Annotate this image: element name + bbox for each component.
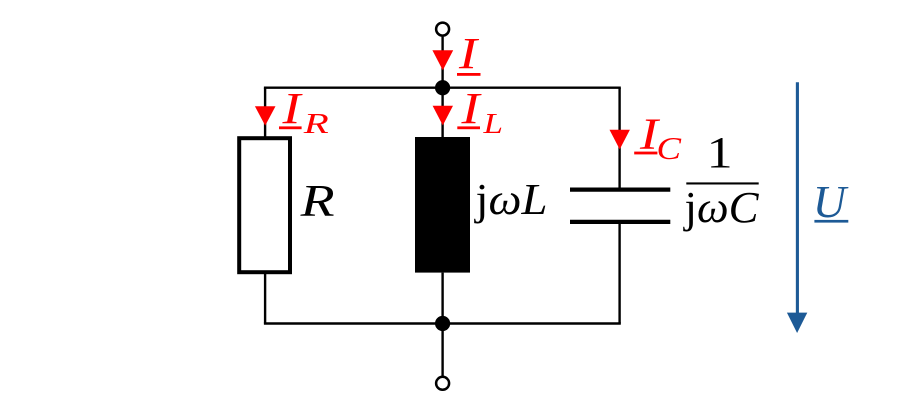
resistor R (white rectangle) bbox=[239, 138, 290, 272]
terminal: bottom port (open circle) bbox=[436, 377, 449, 390]
label I_R (red, underlined, subscript R) bbox=[279, 84, 329, 140]
current arrow I (red arrowhead) bbox=[432, 50, 453, 70]
wire: middle branch lower segment bbox=[441, 273, 443, 324]
svg-text:U: U bbox=[813, 176, 849, 227]
current arrow I_R (red arrowhead) bbox=[255, 106, 276, 125]
wire: left branch upper segment bbox=[264, 88, 266, 137]
wire: top horizontal bus bbox=[264, 86, 621, 88]
capacitor C top plate bbox=[570, 188, 670, 192]
svg-text:I: I bbox=[281, 84, 303, 133]
voltage arrow U (blue) bbox=[787, 82, 807, 333]
terminal: top port (open circle) bbox=[436, 23, 449, 36]
label 1/(jωC) fraction bbox=[682, 128, 759, 232]
wire: right branch upper segment bbox=[618, 88, 620, 188]
node A (top junction dot) bbox=[435, 80, 450, 95]
svg-text:jωL: jωL bbox=[473, 175, 547, 224]
svg-text:jωC: jωC bbox=[682, 183, 759, 232]
current arrow I_C (red arrowhead) bbox=[610, 130, 630, 150]
svg-text:I: I bbox=[458, 29, 480, 78]
svg-text:C: C bbox=[657, 130, 682, 166]
svg-text:1: 1 bbox=[707, 128, 733, 177]
current arrow I_L (red arrowhead) bbox=[433, 106, 453, 126]
label I_C (red, underlined, subscript C) bbox=[634, 110, 682, 167]
label U (blue, underlined) bbox=[813, 176, 849, 227]
label I (red, underlined) bbox=[457, 29, 481, 78]
wire: right branch lower segment bbox=[618, 224, 620, 324]
svg-text:L: L bbox=[482, 108, 503, 140]
label I_L (red, underlined, subscript L) bbox=[457, 84, 503, 140]
wire: middle branch upper segment bbox=[441, 88, 443, 138]
inductor jωL (filled black rectangle) bbox=[415, 137, 470, 273]
wire: top stub from terminal to node A bbox=[441, 37, 443, 88]
wire: left branch lower segment bbox=[264, 273, 266, 324]
svg-text:R: R bbox=[302, 108, 329, 140]
capacitor C bottom plate bbox=[570, 220, 670, 224]
wire: bottom stub from node B to terminal bbox=[441, 324, 443, 377]
node B (bottom junction dot) bbox=[435, 316, 450, 331]
svg-text:I: I bbox=[460, 84, 482, 133]
svg-text:R: R bbox=[299, 175, 334, 226]
wire: bottom horizontal bus bbox=[264, 322, 621, 324]
